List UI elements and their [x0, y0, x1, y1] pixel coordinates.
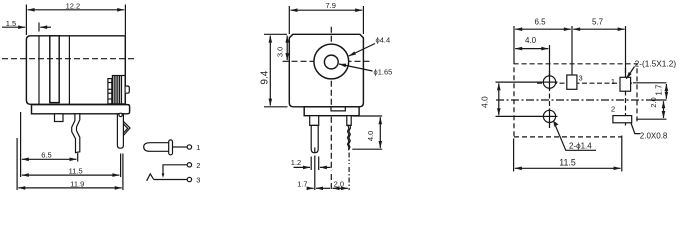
dim ext: body centerline lower: [330, 174, 332, 190]
dim ext: left outer lines: [20, 112, 22, 177]
terminal 3 zigzag contact: [147, 174, 154, 181]
svg-text:11.9: 11.9: [70, 180, 84, 189]
dimension 1.7 right: [665, 84, 667, 99]
left leg (kinked): [72, 114, 80, 153]
dim ext: pin center: [314, 156, 316, 191]
right leg: [117, 114, 123, 148]
svg-text:4.0: 4.0: [480, 96, 490, 108]
svg-text:2-ϕ1.4: 2-ϕ1.4: [569, 142, 592, 151]
spring column segments: [108, 82, 112, 84]
dim ext: right pin center lower: [348, 167, 350, 190]
left view body: [26, 36, 125, 105]
contact stack plate lines: [113, 76, 115, 104]
right leg rivet: [119, 113, 122, 116]
slot 2: [613, 116, 632, 123]
body internal vertical line 2: [68, 36, 70, 105]
left pin shaft: [311, 125, 318, 152]
hole top (2-phi1.4): [543, 76, 555, 88]
dim ext: row1 right: [633, 82, 666, 84]
svg-text:7.9: 7.9: [325, 1, 335, 10]
body internal vertical line 1: [38, 36, 40, 105]
dimension 4.0 left: [498, 83, 500, 115]
dimension 9.4 ext lines: [264, 33, 287, 35]
svg-text:2-(1.5X1.2): 2-(1.5X1.2): [635, 58, 677, 68]
dim ext: 11.5 bottom: [513, 139, 515, 172]
left pin tip mark: [314, 148, 316, 153]
svg-text:4.0: 4.0: [525, 36, 537, 45]
right pin squiggle: [348, 125, 351, 150]
flange notch: [331, 107, 345, 111]
svg-text:1: 1: [611, 77, 615, 86]
dimension 5.7: [573, 28, 624, 30]
dimension 4.0 top: [515, 48, 548, 50]
central axis (dash-dot): [496, 99, 648, 101]
dim ext: 4.0 horizontals: [353, 115, 382, 117]
switch arm from terminal 2: [163, 165, 187, 176]
svg-text:11.5: 11.5: [559, 157, 576, 167]
dimension 11.5 bottom: [515, 167, 621, 169]
dimension 3.0: [286, 36, 288, 61]
svg-text:ϕ4.4: ϕ4.4: [376, 35, 391, 44]
svg-text:2.0: 2.0: [649, 97, 658, 107]
plug disc: [169, 140, 173, 155]
dimension 12.2: [28, 9, 125, 11]
svg-text:2: 2: [611, 105, 615, 114]
dim ext: 11.9 right: [122, 154, 124, 191]
svg-text:1.7: 1.7: [655, 84, 664, 96]
label leader 4.4: [349, 44, 375, 57]
hole bottom: [543, 110, 555, 122]
svg-text:1.2: 1.2: [291, 158, 301, 167]
dimension 6.5: [515, 28, 571, 30]
dim ext: central axis right: [648, 99, 667, 101]
footprint outline (dashed): [514, 64, 637, 136]
footprint outline bottom edge: [514, 136, 622, 138]
dimension 7.9: [291, 9, 363, 11]
row1 centerline: [537, 82, 632, 84]
dimension 11.5: [22, 174, 120, 176]
mounting post: [55, 114, 64, 122]
dimension 11.9: [18, 187, 121, 189]
plug barrel symbol: [144, 143, 169, 152]
flange: [304, 107, 359, 116]
dim ext: left leg center: [77, 153, 79, 162]
dimension 6.5: [22, 158, 77, 160]
front body: [289, 34, 363, 107]
leader 2-phi1.4: [554, 122, 596, 151]
label leader 1.65: [339, 64, 373, 71]
centerline (dashed): [2, 58, 134, 60]
svg-text:5.7: 5.7: [592, 18, 604, 27]
svg-text:ϕ1.65: ϕ1.65: [374, 68, 393, 77]
leader arrowhead 2-phi1.4: [553, 121, 558, 127]
dimension 7.9 ext lines: [288, 6, 290, 34]
svg-text:2.0: 2.0: [334, 180, 344, 189]
dim ext lines top: [513, 26, 515, 64]
slot 1: [620, 77, 631, 91]
contact stack plates: [112, 76, 125, 104]
holes centerline vertical: [549, 71, 551, 128]
svg-text:3: 3: [579, 74, 583, 83]
base plate: [32, 105, 130, 114]
dimension 9.4: [269, 36, 271, 106]
svg-text:4.0: 4.0: [366, 131, 375, 141]
right pin centerline: [348, 153, 350, 165]
horizontal centerline: [283, 60, 370, 62]
svg-text:9.4: 9.4: [259, 70, 270, 84]
svg-text:11.5: 11.5: [69, 166, 83, 175]
terminal 1 circle: [187, 145, 191, 149]
svg-text:6.5: 6.5: [41, 151, 51, 160]
leader 2-(1.5X1.2): [626, 67, 634, 79]
svg-text:3: 3: [196, 176, 200, 185]
vertical centerline: [330, 27, 332, 171]
svg-text:2: 2: [196, 161, 200, 170]
dimension 4.0 (pin length): [379, 117, 381, 148]
right pin top: [347, 116, 351, 126]
right side tab: [125, 86, 129, 93]
right leg flare: [123, 121, 130, 135]
wire to terminal 1: [173, 146, 188, 148]
svg-text:6.5: 6.5: [534, 18, 546, 27]
dimension 12.2 extension lines: [25, 5, 27, 36]
dim ext: 4.0 left horizontals: [496, 81, 543, 83]
wire to terminal 3: [154, 179, 188, 181]
svg-text:1: 1: [196, 143, 200, 152]
terminal 3 circle: [187, 177, 191, 181]
slot 3: [567, 75, 577, 89]
inner circle: [324, 55, 338, 69]
svg-text:12.2: 12.2: [66, 1, 81, 10]
svg-text:1.7: 1.7: [297, 180, 307, 189]
left pin top: [310, 116, 319, 126]
svg-text:3.0: 3.0: [275, 47, 284, 57]
svg-text:2.0X0.8: 2.0X0.8: [640, 132, 668, 141]
leader 2.0X0.8: [631, 123, 640, 134]
dim ext: pin edges: [310, 157, 312, 171]
internal bar: [50, 36, 59, 103]
terminal 2 circle: [187, 163, 191, 167]
dim ext: slot2 center: [636, 118, 666, 120]
contact spring column: [108, 79, 112, 104]
right slots centerline vertical: [625, 68, 627, 127]
dimension 2.0 right: [663, 101, 665, 118]
outer circle: [314, 44, 349, 79]
dim ext: right leg center: [120, 154, 122, 178]
